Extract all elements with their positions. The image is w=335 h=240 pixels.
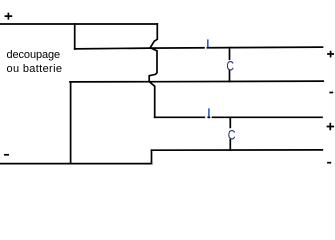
capacitor C1 lower lead [229,71,231,82]
wire output1 minus rail [70,80,323,83]
wire left vertical to bottom rail [70,82,72,164]
wire output1 plus rail [75,47,323,49]
wire step up to output2 minus rail [151,150,153,163]
wire left drop to output1 plus rail [74,24,76,49]
wire bottom rail from source - [0,163,152,165]
label + output1 positive [327,51,334,58]
wire output2 plus rail [155,116,322,118]
svg-text:C: C [226,57,234,73]
svg-text:C: C [228,126,236,142]
label + output2 positive [327,123,335,130]
label + source positive terminal [5,13,13,20]
wire top rail from source + [0,23,157,25]
capacitor C2 upper lead [229,118,231,128]
label - source negative terminal [4,154,9,156]
label inductor L2 [208,108,210,116]
svg-text:decoupage: decoupage [7,49,61,61]
label inductor L1 white notch in rail [205,46,207,49]
label inductor L2 white notches in rail [205,116,207,119]
label - output1 negative [329,92,333,94]
svg-text:ou batterie: ou batterie [7,63,63,75]
wire long vertical from top rail to output2 plus rail with crossover jogs [149,24,157,117]
capacitor C2 lower lead [229,140,231,150]
label - output2 negative [327,162,331,164]
label inductor L1 [207,39,209,47]
capacitor C1 upper lead [229,48,231,60]
wire output2 minus rail [152,149,323,151]
